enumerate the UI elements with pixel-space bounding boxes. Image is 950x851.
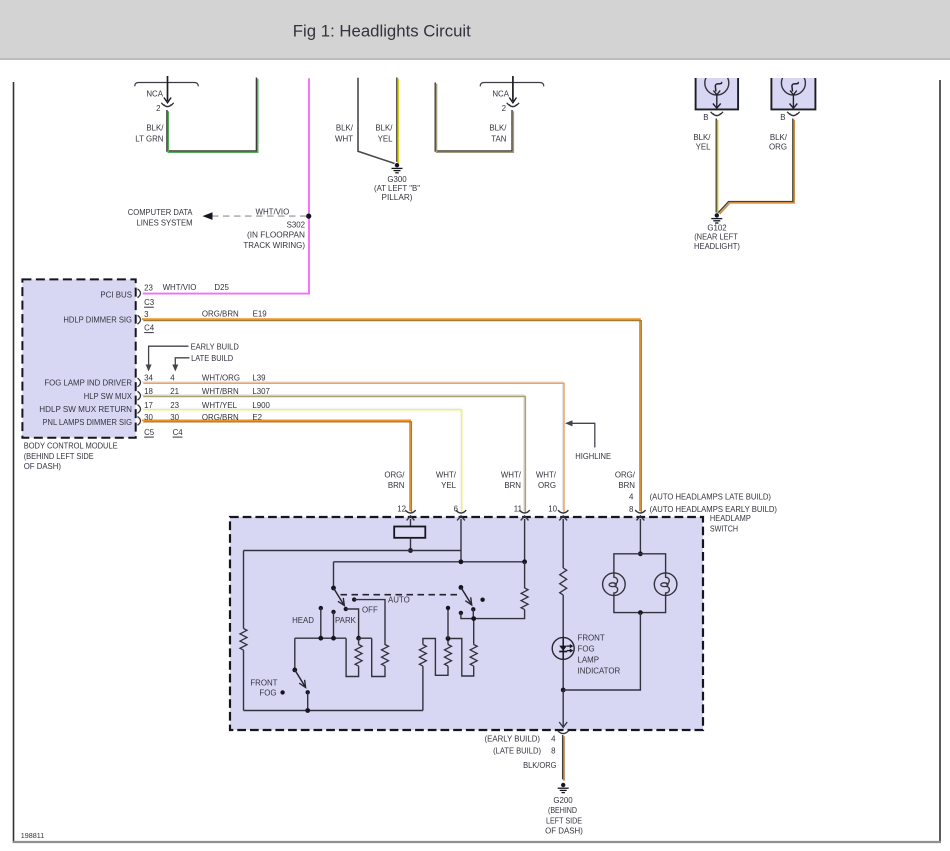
svg-text:EARLY BUILD: EARLY BUILD [191, 343, 239, 352]
svg-text:S302: S302 [287, 220, 305, 229]
svg-text:30: 30 [144, 413, 153, 422]
ground G102 [694, 213, 740, 251]
front fog switch arm [292, 638, 310, 713]
svg-text:4: 4 [629, 493, 634, 502]
svg-text:L39: L39 [252, 374, 266, 383]
svg-text:BLK/: BLK/ [693, 133, 711, 142]
auto gang switch arm (right) [459, 585, 485, 615]
resistor R3 (auto ladder) [372, 638, 389, 676]
svg-text:WHT/YEL: WHT/YEL [202, 401, 238, 410]
svg-text:8: 8 [551, 746, 556, 755]
sheet number 198811 [21, 831, 44, 840]
BCM pin 30/30 connector + wire ORG/BRN E2 [138, 413, 412, 513]
wire below LED [561, 659, 566, 726]
auto contact wire [352, 597, 385, 645]
svg-text:L307: L307 [252, 387, 270, 396]
svg-text:NCA: NCA [146, 90, 163, 99]
svg-text:BLK/: BLK/ [489, 124, 507, 133]
svg-text:8: 8 [629, 505, 634, 514]
svg-text:WHT/: WHT/ [501, 471, 522, 480]
wire BLK/YEL (to G300) [375, 77, 398, 163]
junction block (cut off) above connector, left [135, 83, 198, 87]
resistor R1 (left wall) [240, 629, 247, 711]
svg-text:(EARLY BUILD): (EARLY BUILD) [485, 735, 541, 744]
svg-text:BLK/: BLK/ [375, 124, 393, 133]
svg-text:BRN: BRN [504, 481, 521, 490]
svg-text:C3: C3 [144, 298, 155, 307]
svg-text:TAN: TAN [491, 135, 506, 144]
selector switch arm (left) [331, 586, 348, 612]
resistor R2 (off-head ladder) [346, 638, 362, 676]
svg-text:OF DASH): OF DASH) [545, 827, 583, 836]
node: pin12 to bus [244, 548, 462, 553]
wire label ORG/BRN at pin 8 [615, 471, 778, 514]
svg-text:BRN: BRN [388, 481, 405, 490]
resistor R7 (pin 11 branch) [521, 562, 528, 610]
svg-text:LINES SYSTEM: LINES SYSTEM [137, 219, 193, 228]
svg-text:FOG LAMP IND DRIVER: FOG LAMP IND DRIVER [44, 379, 132, 388]
left wall branch wire [243, 551, 245, 629]
svg-text:18: 18 [144, 387, 153, 396]
BCM pin 18/21 connector + wire WHT/BRN L307 [138, 387, 526, 512]
horizontal bus y=561.8 (pins 6-11) [334, 559, 527, 588]
body control module U1 [22, 279, 135, 471]
svg-text:HLP SW MUX: HLP SW MUX [84, 392, 133, 401]
pin 8 connector into switch [635, 510, 645, 554]
BCM pin 34/4 connector + wire WHT/ORG L39 [138, 374, 564, 513]
node gang rail junction [471, 616, 476, 621]
svg-text:C5: C5 [144, 428, 155, 437]
svg-text:SWITCH: SWITCH [710, 524, 738, 533]
wire label WHT/YEL at pin 6 [436, 471, 459, 514]
svg-text:ORG/: ORG/ [615, 471, 636, 480]
highline pointer [565, 420, 611, 461]
wire BLK/LT GRN [135, 77, 257, 152]
svg-text:2: 2 [156, 104, 160, 113]
node chain taps [446, 606, 451, 641]
label NCA (left) [146, 90, 163, 99]
headlamp bulb (left) [696, 71, 739, 110]
svg-text:23: 23 [144, 283, 153, 292]
svg-text:12: 12 [397, 505, 406, 514]
front fog open contact [250, 678, 284, 697]
svg-text:G102: G102 [707, 224, 726, 233]
gang switch contact rail [461, 609, 525, 618]
gang dashed link [341, 594, 459, 596]
svg-text:HDLP SW MUX RETURN: HDLP SW MUX RETURN [39, 405, 132, 414]
wire label ORG/BRN at pin 12 [384, 471, 406, 514]
svg-text:ORG/: ORG/ [384, 471, 405, 480]
svg-text:NCA: NCA [492, 90, 509, 99]
BCM connector refs C5 C4 [144, 428, 183, 437]
svg-text:OFF: OFF [362, 605, 378, 614]
resistor R6 (series chain right) [470, 619, 477, 666]
svg-text:198811: 198811 [21, 831, 44, 840]
svg-text:ORG: ORG [769, 142, 787, 151]
early build arrow [146, 343, 239, 372]
svg-text:LATE BUILD: LATE BUILD [191, 354, 233, 363]
headlamp bulb (right) [771, 71, 815, 110]
svg-text:YEL: YEL [378, 135, 394, 144]
wire BLK/WHT [335, 78, 395, 164]
svg-text:3: 3 [144, 310, 149, 319]
svg-text:LT GRN: LT GRN [135, 135, 164, 144]
title bar [0, 0, 950, 60]
svg-text:FRONT: FRONT [578, 633, 605, 642]
BCM pin C4-3 connector + wire ORG/BRN E19 [138, 309, 642, 512]
svg-text:BODY CONTROL MODULE: BODY CONTROL MODULE [24, 442, 118, 451]
BCM pin 17/23 connector + wire WHT/YEL L900 [138, 401, 462, 512]
svg-text:ORG: ORG [538, 481, 556, 490]
position labels [292, 596, 410, 625]
wire into connector, mid NCA [509, 76, 516, 103]
ground G300 [374, 163, 420, 202]
svg-text:(AT LEFT "B": (AT LEFT "B" [374, 184, 420, 193]
svg-text:LEFT SIDE: LEFT SIDE [546, 816, 582, 825]
headlamp switch S1 [230, 514, 751, 730]
svg-text:B: B [780, 113, 785, 122]
off contact wire [346, 609, 359, 638]
svg-text:D25: D25 [214, 283, 229, 292]
svg-text:G300: G300 [387, 175, 407, 184]
svg-text:ORG/BRN: ORG/BRN [202, 413, 239, 422]
junction block (cut off) above connector, mid [480, 83, 543, 87]
svg-text:HEADLIGHT): HEADLIGHT) [694, 242, 740, 251]
svg-text:YEL: YEL [441, 481, 457, 490]
svg-text:(BEHIND LEFT SIDE: (BEHIND LEFT SIDE [24, 452, 94, 461]
pin 11 connector into switch [519, 510, 529, 562]
svg-text:(AUTO HEADLAMPS LATE BUILD): (AUTO HEADLAMPS LATE BUILD) [650, 493, 772, 502]
ground G200 [545, 783, 583, 836]
svg-text:COMPUTER DATA: COMPUTER DATA [128, 208, 193, 217]
svg-text:WHT/: WHT/ [436, 471, 457, 480]
svg-text:(NEAR LEFT: (NEAR LEFT [694, 233, 738, 242]
svg-text:B: B [703, 113, 708, 122]
svg-text:PILLAR): PILLAR) [382, 193, 413, 202]
head contact [319, 606, 323, 638]
dashed wire to computer data lines system [128, 207, 306, 227]
svg-text:BLK/: BLK/ [146, 124, 164, 133]
svg-text:BLK/: BLK/ [770, 133, 788, 142]
svg-text:HEADLAMP: HEADLAMP [710, 514, 751, 523]
svg-text:(BEHIND: (BEHIND [548, 806, 577, 815]
svg-text:(LATE BUILD): (LATE BUILD) [493, 746, 541, 755]
LED front fog lamp indicator [552, 633, 620, 675]
svg-text:WHT/: WHT/ [536, 471, 557, 480]
resistor R5 (series chain mid) [445, 639, 474, 677]
wire label WHT/ORG at pin 10 [536, 471, 558, 514]
svg-text:(AUTO HEADLAMPS EARLY BUILD): (AUTO HEADLAMPS EARLY BUILD) [650, 505, 778, 514]
svg-text:BRN: BRN [618, 481, 635, 490]
connector pin 2, mid [502, 103, 519, 113]
svg-text:E19: E19 [253, 309, 268, 318]
resistor R4 (series chain left) [419, 639, 448, 711]
bus of selector ladder [295, 636, 372, 641]
svg-text:C4: C4 [144, 324, 155, 333]
svg-text:(IN FLOORPAN: (IN FLOORPAN [247, 231, 305, 240]
svg-text:INDICATOR: INDICATOR [578, 667, 621, 676]
svg-text:G200: G200 [553, 796, 573, 805]
svg-text:WHT: WHT [335, 135, 353, 144]
svg-text:2: 2 [502, 104, 506, 113]
svg-text:10: 10 [548, 505, 557, 514]
svg-text:C4: C4 [173, 428, 184, 437]
svg-text:HDLP DIMMER SIG: HDLP DIMMER SIG [63, 315, 132, 324]
wire BLK/TAN [435, 82, 513, 152]
splice S302 [243, 214, 311, 250]
connector pin B (left headlamp) [703, 112, 723, 122]
svg-text:30: 30 [170, 413, 179, 422]
svg-text:FOG: FOG [259, 688, 276, 697]
svg-text:HEAD: HEAD [292, 616, 314, 625]
svg-text:PARK: PARK [335, 616, 357, 625]
svg-text:AUTO: AUTO [388, 596, 410, 605]
park contact [331, 610, 335, 639]
svg-text:OF DASH): OF DASH) [24, 462, 62, 471]
wire label WHT/BRN at pin 11 [501, 471, 522, 514]
connector pin B (right headlamp) [780, 112, 799, 122]
pin 12 connector into switch [405, 510, 415, 526]
svg-text:WHT/ORG: WHT/ORG [202, 374, 240, 383]
bottom bus wire [244, 710, 423, 712]
svg-text:WHT/VIO: WHT/VIO [256, 207, 290, 216]
panel bulbs pair [563, 551, 677, 690]
pin 6 connector into switch [456, 510, 466, 562]
wire BLK/ORG (right headlamp to G102) [718, 118, 794, 214]
svg-text:ORG/BRN: ORG/BRN [202, 309, 239, 318]
svg-text:PNL LAMPS DIMMER SIG: PNL LAMPS DIMMER SIG [43, 418, 133, 427]
svg-text:21: 21 [170, 387, 179, 396]
svg-text:TRACK WIRING): TRACK WIRING) [243, 241, 305, 250]
pin 4/8 exit connector [485, 722, 569, 755]
wire into connector, left NCA [164, 76, 171, 103]
svg-text:HIGHLINE: HIGHLINE [575, 452, 611, 461]
svg-text:WHT/BRN: WHT/BRN [202, 387, 239, 396]
svg-text:PCI BUS: PCI BUS [100, 291, 132, 300]
svg-text:34: 34 [144, 374, 153, 383]
svg-text:FOG: FOG [578, 645, 595, 654]
svg-text:4: 4 [551, 735, 556, 744]
svg-text:23: 23 [170, 401, 179, 410]
resistor R8 (pin 10 branch) [560, 568, 567, 638]
rheostat (panel dimmer) [394, 527, 425, 551]
svg-text:4: 4 [170, 374, 175, 383]
svg-text:E2: E2 [252, 413, 262, 422]
svg-text:YEL: YEL [696, 142, 712, 151]
pin 10 connector into switch [558, 510, 568, 568]
wire BLK/YEL (left headlamp to G102) [693, 118, 717, 213]
svg-text:LAMP: LAMP [578, 656, 600, 665]
connector pin 2, left (C100) [156, 103, 174, 113]
late build arrow [172, 354, 233, 371]
BCM pin C3-23 connector [138, 283, 230, 307]
svg-text:FRONT: FRONT [250, 678, 277, 687]
svg-text:WHT/VIO: WHT/VIO [163, 283, 197, 292]
svg-text:17: 17 [144, 401, 153, 410]
svg-text:L900: L900 [252, 401, 270, 410]
svg-text:BLK/ORG: BLK/ORG [523, 761, 556, 770]
svg-text:BLK/: BLK/ [336, 124, 354, 133]
label NCA (mid) [492, 90, 509, 99]
svg-text:Fig 1: Headlights Circuit: Fig 1: Headlights Circuit [293, 23, 471, 41]
wire WHT/VIO (PCI bus) [143, 78, 309, 293]
wire BLK/ORG to G200 [523, 735, 564, 781]
